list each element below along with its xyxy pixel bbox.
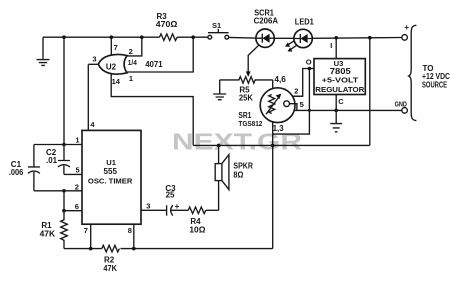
svg-text:2: 2 [75,182,79,191]
resistor R4 [188,207,218,234]
svg-text:8: 8 [128,226,132,235]
svg-text:1: 1 [129,74,133,83]
wire 555 pin 3 [141,202,166,211]
pushbutton S1 [208,21,229,39]
svg-text:47K: 47K [103,264,117,273]
svg-text:5: 5 [300,100,304,109]
svg-text:U2: U2 [106,62,117,71]
wire ground line [295,109,402,111]
wire gate pin 7 [111,37,117,54]
svg-text:TGS812: TGS812 [238,121,262,128]
resistor R1 [40,211,68,249]
node speaker top [217,144,221,148]
node rail x64 [62,35,66,39]
wire right loop vertical [369,38,371,146]
svg-text:2: 2 [294,87,298,96]
svg-text:555: 555 [104,167,118,176]
ground (left rail) [37,37,50,65]
node U3 input on rail [334,36,338,40]
svg-text:+: + [175,202,180,211]
resistor R3 [156,12,178,41]
node SR1 bottom [271,144,275,148]
svg-text:LED1: LED1 [295,18,315,27]
svg-text:+: + [404,23,409,32]
svg-text:1/4: 1/4 [128,58,138,67]
svg-text:25: 25 [166,190,175,199]
svg-text:3: 3 [146,202,150,211]
gas sensor SR1 TGS812 [238,88,297,133]
wire gate output pin 3 [88,55,98,65]
svg-text:470Ω: 470Ω [156,20,178,29]
wire O pin down to SR1 pins 1,3 [273,69,310,135]
wire 555 pin 1 [64,135,82,144]
U3 7805 regulator [314,59,365,95]
svg-text:U1: U1 [106,158,116,167]
node 555 pin 2 [62,189,66,193]
wire to 555 pin 4 [88,64,95,130]
node rail x193 [191,35,195,39]
wire 555 pin 8 [128,224,134,248]
svg-text:SPKR: SPKR [233,162,253,171]
svg-text:1: 1 [75,135,79,144]
node on ground line [308,109,311,112]
svg-text:4071: 4071 [145,59,163,69]
svg-text:+5-VOLT: +5-VOLT [322,76,359,85]
brace to source [409,25,417,120]
svg-text:.01: .01 [46,156,58,165]
wire LED to + terminal [312,37,402,40]
wire SCR to LED [274,37,294,39]
wire bottom rail [64,248,273,250]
resistor R2 [102,245,120,272]
wire U3 C pin [336,95,344,111]
wire gate input pin 2 [127,37,142,56]
wire SR1 pin 2 [293,87,303,97]
svg-text:10Ω: 10Ω [189,225,206,234]
svg-text:7: 7 [84,226,88,235]
wire 555 pin 6 [64,202,82,211]
wire gate input pin 1 [127,37,193,83]
svg-text:I: I [330,41,332,50]
wire U3 I pin [330,38,336,59]
SCR gate wire [246,45,259,77]
svg-text:7: 7 [114,43,118,52]
node right loop on rail [368,36,372,40]
capacitor C1 [9,145,64,191]
wire O pin to SR1 pin 2 [293,69,310,97]
wire pin2 to pin6 [63,191,65,211]
capacitor C3 [165,184,188,215]
svg-text:SR1: SR1 [238,111,251,120]
svg-text:O: O [306,57,312,66]
node 555 pin 1 [62,143,66,147]
svg-text:25K: 25K [239,94,253,103]
node pin 8 bottom [132,247,136,251]
ground (R5) [213,80,226,100]
wire S1 to SCR [229,36,256,39]
label TO +12 VDC SOURCE [422,64,450,89]
svg-text:OSC. TIMER: OSC. TIMER [88,177,133,186]
node 555 pin 6 [62,209,66,213]
svg-text:C206A: C206A [254,16,279,26]
svg-text:14: 14 [112,77,121,86]
speaker SPKR [215,145,253,210]
resistor R5 [220,77,273,103]
node pin 7 bottom [89,247,93,251]
node rail x111 [110,35,114,39]
svg-text:6: 6 [75,202,79,211]
wire 555 pin 2 [46,182,82,191]
svg-text:C: C [338,97,344,106]
capacitor C2 [46,145,82,175]
wire top rail left [43,36,208,38]
GND terminal [395,100,408,114]
ground (U3 C pin) [330,110,342,131]
U2 gate 1/4 4071 [98,54,163,74]
node O pin [308,67,312,71]
svg-text:GND: GND [395,100,408,109]
svg-text:4,6: 4,6 [274,75,286,84]
svg-text:2: 2 [129,47,133,56]
wire 555 pin 7 [84,224,91,248]
SCR1 C206A [254,8,279,47]
svg-text:5: 5 [76,166,80,175]
svg-text:.006: .006 [9,168,24,177]
wire gate pin 14 [111,74,193,145]
LED1 [285,18,314,52]
svg-text:REGULATOR: REGULATOR [315,85,365,94]
node rail x142 [140,35,144,39]
node C pin [334,109,338,113]
+ terminal [402,23,410,40]
svg-text:3: 3 [92,55,96,64]
wire U3 O pin [306,57,314,68]
svg-text:SOURCE: SOURCE [422,80,447,89]
svg-text:47K: 47K [40,229,56,238]
wire SR1 bottom to node [272,122,274,145]
wire SR1 node down to bottom rail [272,145,274,248]
op 555 timer U1 [82,130,141,224]
wire left vertical to pin 1 [63,37,65,144]
svg-text:S1: S1 [212,21,221,30]
svg-text:1,3: 1,3 [273,124,285,133]
wire long horizontal [193,144,370,146]
svg-text:8Ω: 8Ω [233,171,244,180]
